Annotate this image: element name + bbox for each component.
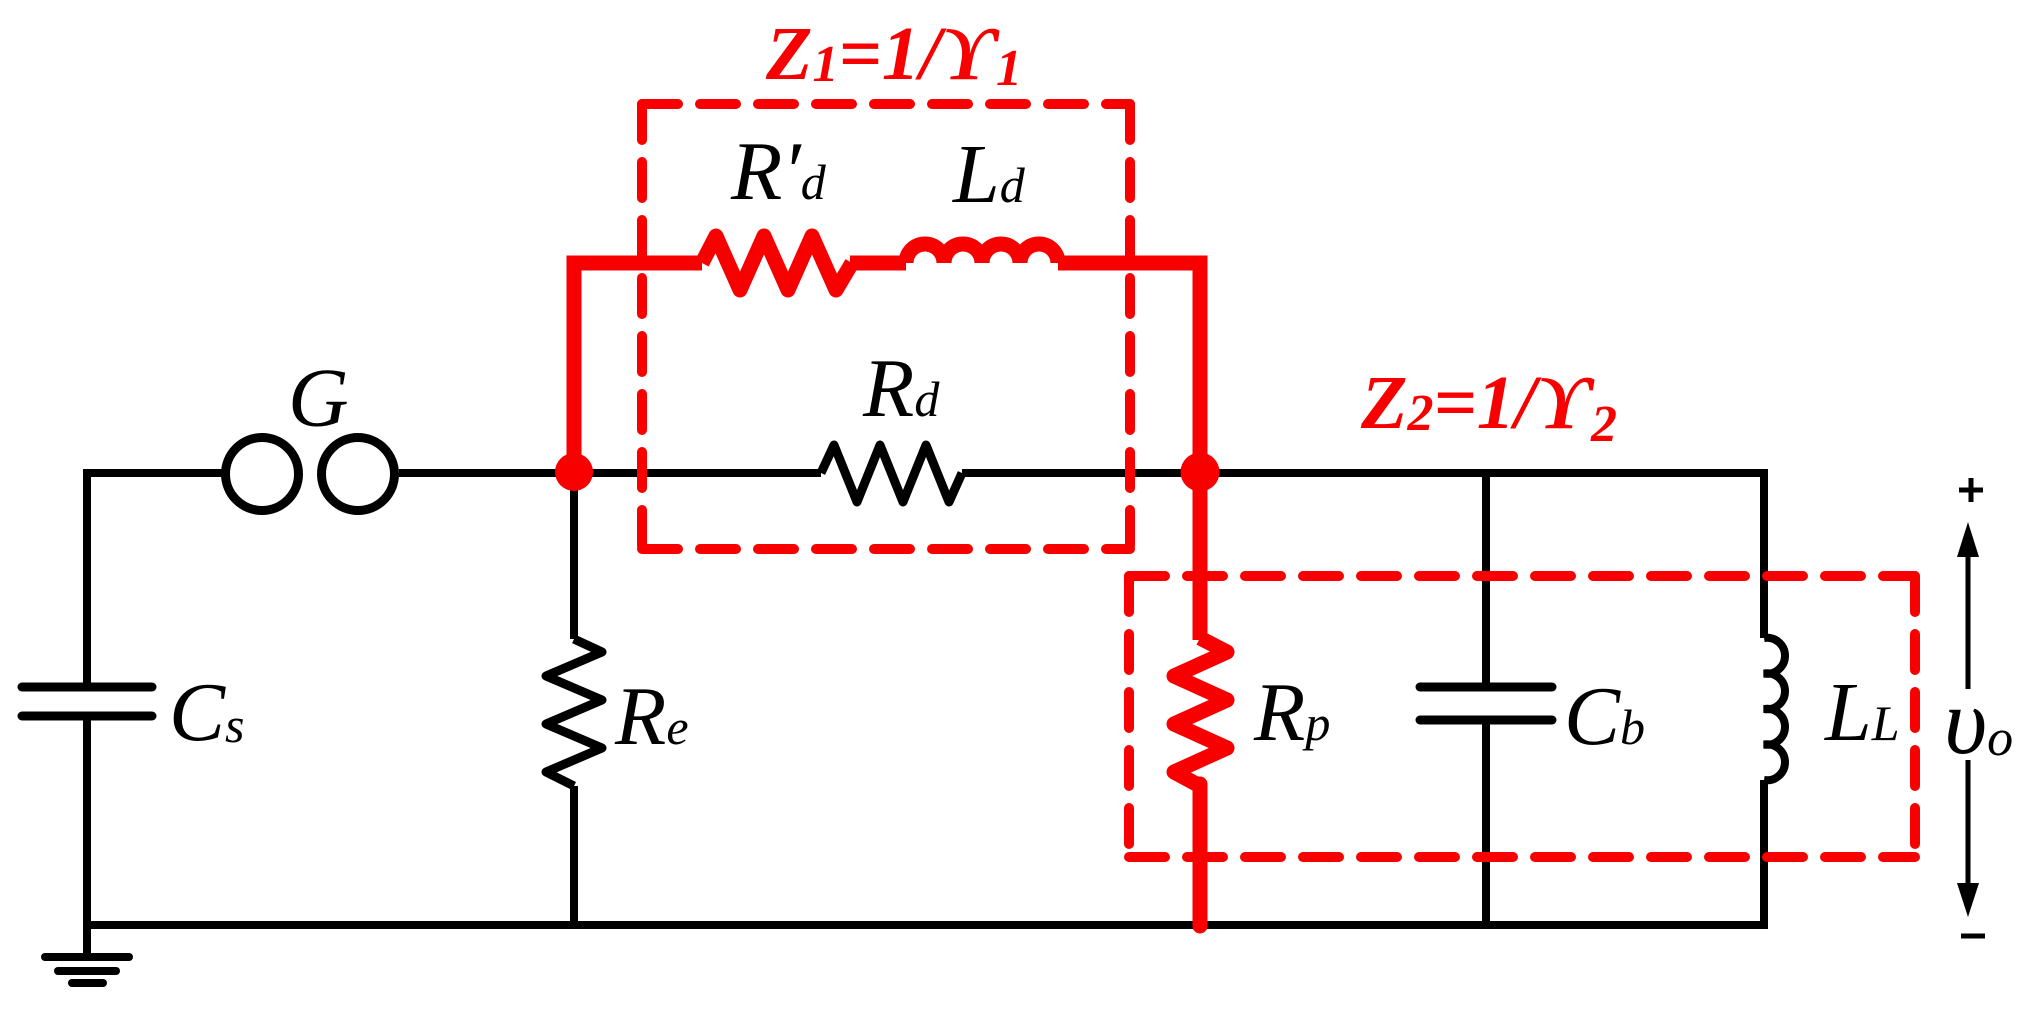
plus sign	[1959, 478, 1983, 502]
resistor Rd	[821, 445, 962, 502]
wire top-left corner to source G and down to Cs	[87, 473, 226, 687]
wire Re to bottom wire	[570, 786, 578, 925]
wire red: Rp to bottom wire	[1193, 784, 1208, 926]
wire red: between R'd and Ld	[850, 256, 906, 271]
minus sign	[1961, 934, 1985, 939]
wire from G to node A	[399, 469, 821, 477]
bottom wire	[87, 921, 1764, 929]
wire top to Cb	[1482, 473, 1490, 687]
wire red: branch top right	[1058, 256, 1208, 271]
ground	[45, 957, 129, 983]
capacitor Cb bottom plate	[1420, 716, 1552, 725]
source G (two circles)	[226, 438, 299, 511]
arrow up	[1966, 550, 1971, 689]
svg-text:Z1=1/ϒ1: Z1=1/ϒ1	[765, 12, 1022, 97]
resistor Rp	[1174, 638, 1227, 786]
dashed box Z2	[1129, 576, 1915, 857]
wire red: node A up	[567, 263, 582, 472]
wire red: branch top left	[567, 256, 703, 271]
inductor LL	[1764, 638, 1785, 781]
arrow down	[1966, 760, 1971, 890]
resistor Re	[546, 639, 602, 786]
capacitor Cb top plate	[1420, 683, 1552, 692]
inductor Ld	[906, 244, 1058, 263]
wire Cb to bottom	[1482, 720, 1490, 925]
svg-text:Z2=1/ϒ2: Z2=1/ϒ2	[1360, 361, 1617, 453]
wire LL to bottom	[1760, 780, 1768, 929]
wire Cs bottom to ground	[83, 716, 91, 957]
dashed box Z1	[642, 104, 1130, 549]
node B dot	[1181, 453, 1220, 492]
resistor R'd	[702, 236, 852, 290]
node A dot	[555, 453, 593, 491]
wire top to LL	[1760, 469, 1768, 638]
svg-text:G: G	[288, 352, 349, 445]
wire red: down to node B	[1193, 263, 1208, 472]
capacitor Cs top plate	[22, 683, 152, 692]
wire node A down to Re	[570, 473, 578, 639]
capacitor Cs bottom plate	[22, 712, 152, 721]
wire red: node B down to Rp	[1193, 472, 1208, 640]
wire from Rd to node B and on to LL	[962, 469, 1764, 477]
